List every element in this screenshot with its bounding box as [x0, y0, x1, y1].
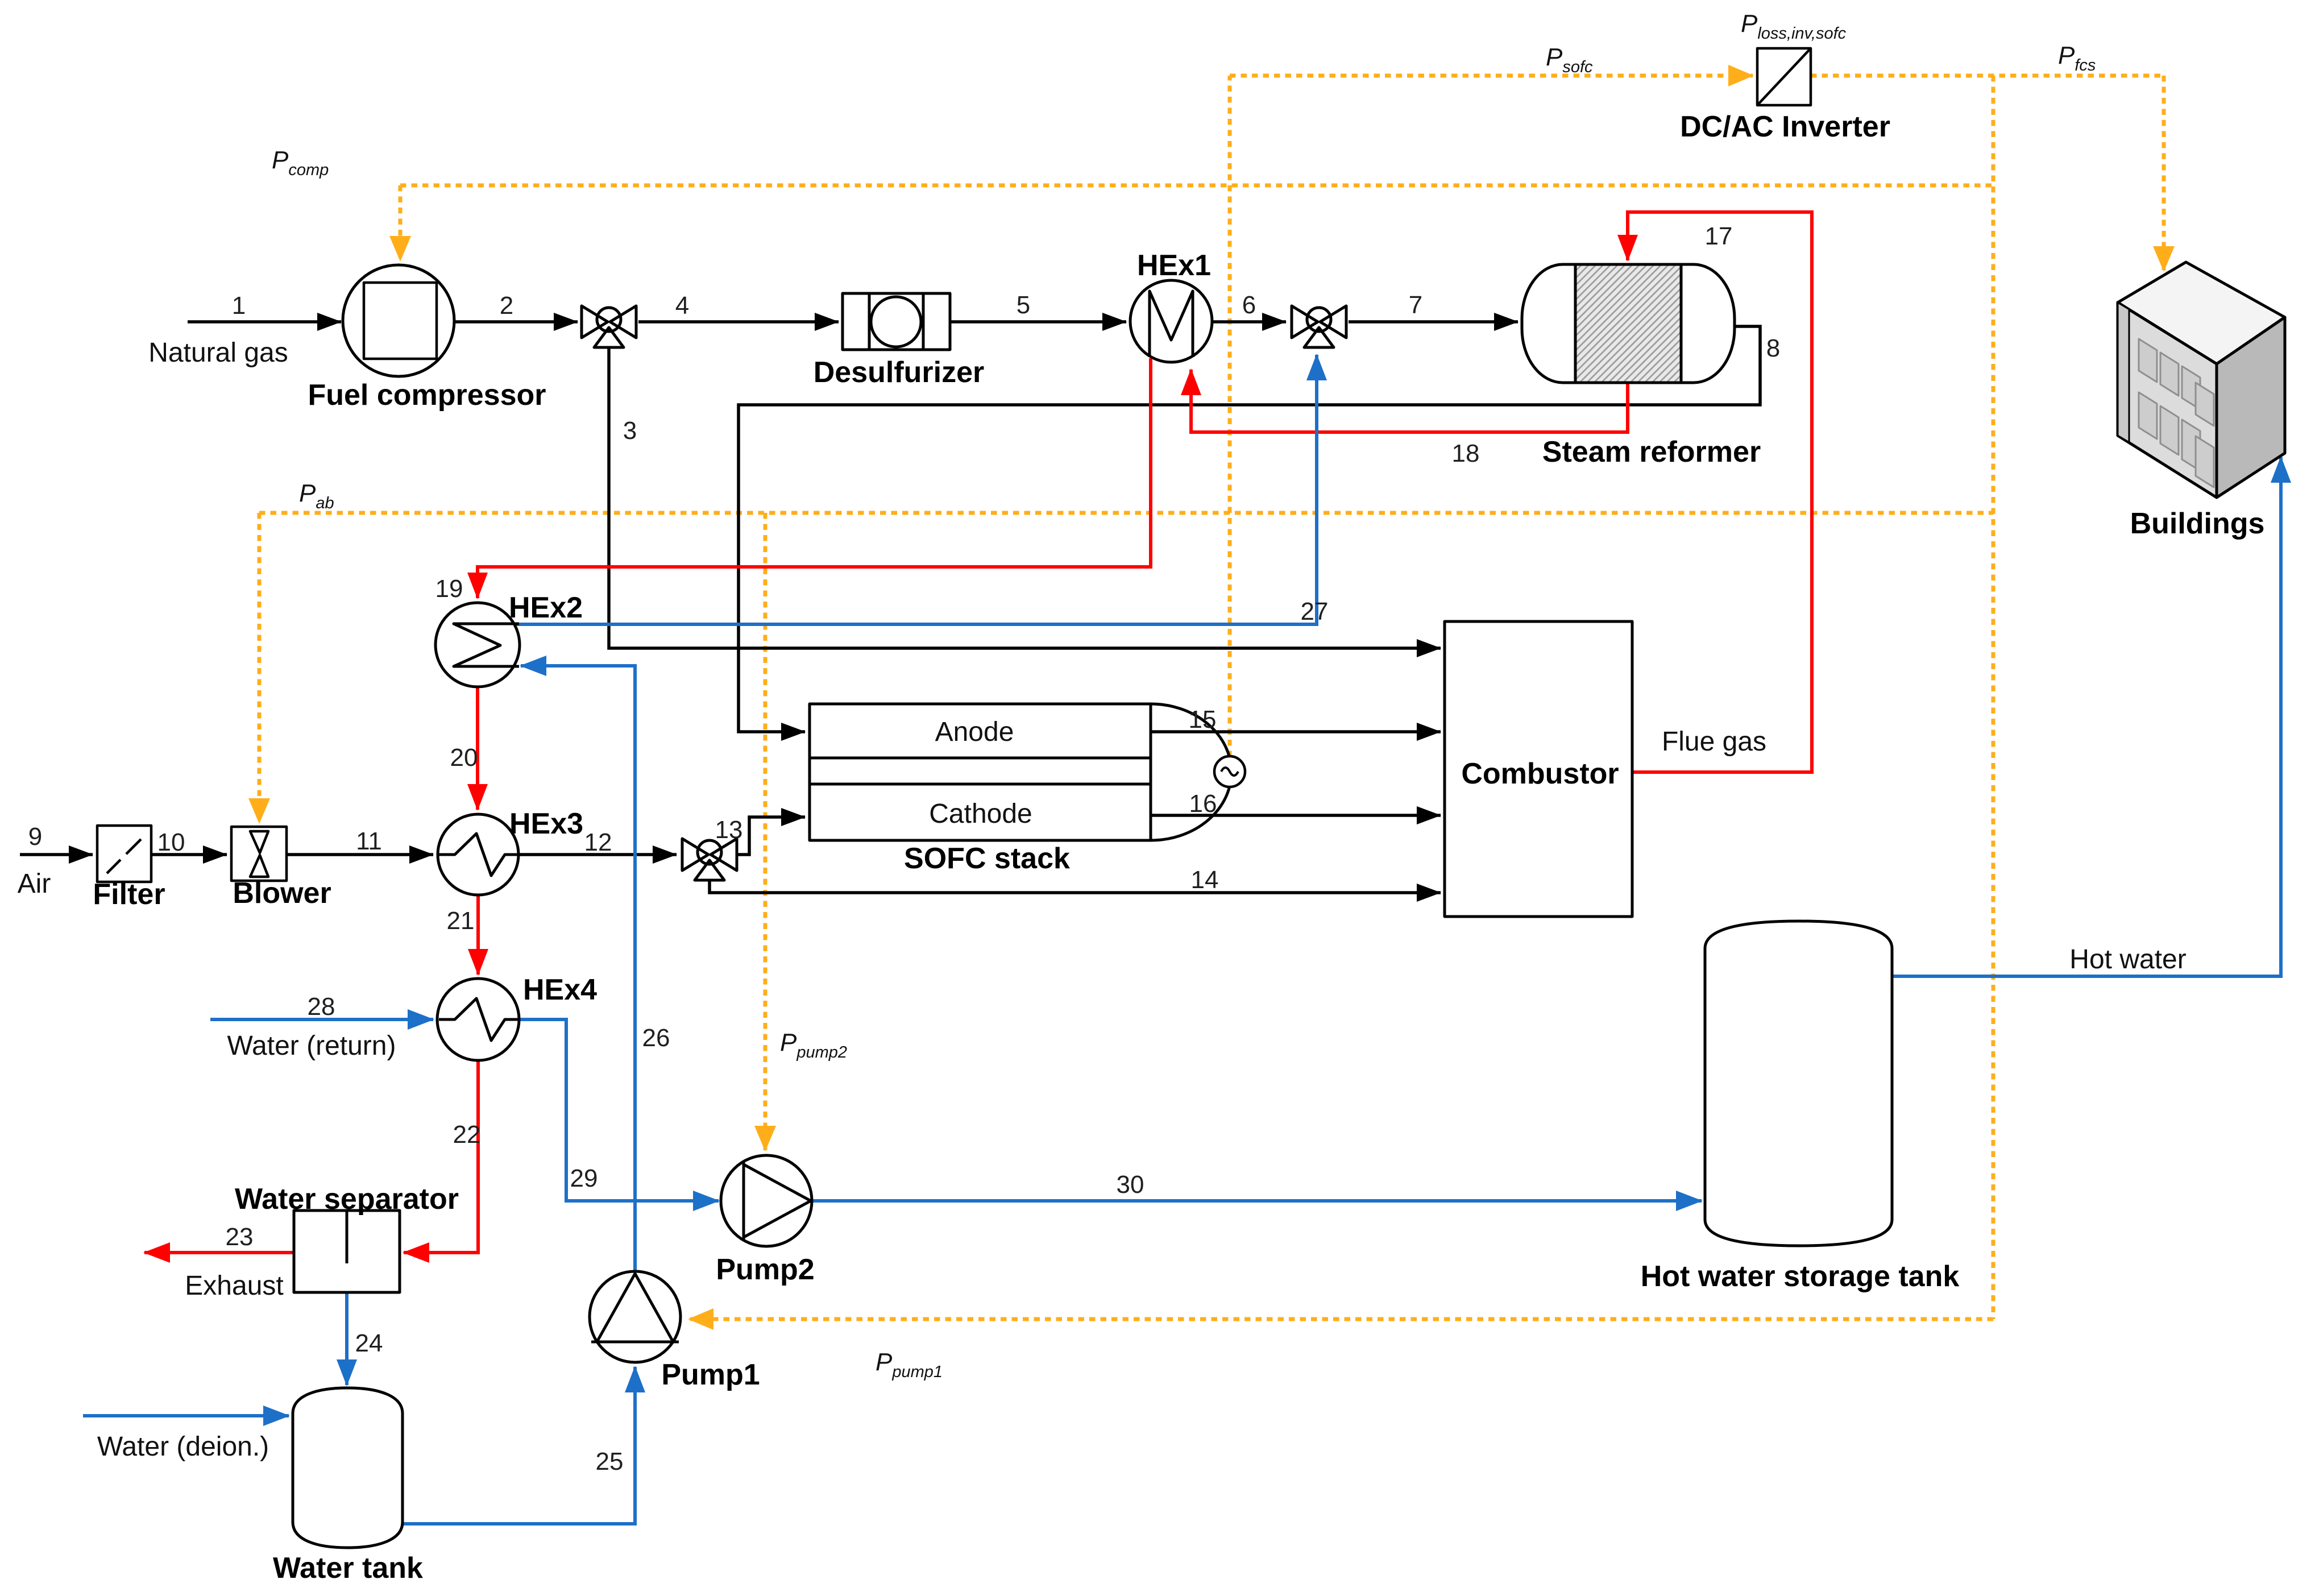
wire stream 19 HEx1 to HEx2	[478, 358, 1151, 598]
svg-text:14: 14	[1191, 866, 1219, 894]
svg-text:19: 19	[435, 575, 463, 603]
svg-text:21: 21	[447, 907, 475, 935]
SOFC stack	[810, 704, 1245, 840]
svg-text:8: 8	[1766, 334, 1780, 362]
wire P_sofc horizontal to DC/AC inverter	[1230, 74, 1753, 78]
svg-text:Cathode: Cathode	[929, 799, 1032, 829]
wire stream 30 Pump2 to storage tank	[812, 1199, 1702, 1203]
svg-text:HEx1: HEx1	[1137, 249, 1211, 282]
svg-text:27: 27	[1301, 598, 1329, 625]
svg-text:30: 30	[1117, 1171, 1144, 1199]
svg-text:Water tank: Water tank	[273, 1552, 423, 1585]
svg-text:Water (deion.): Water (deion.)	[97, 1432, 269, 1462]
water separator	[294, 1211, 400, 1292]
desulfurizer	[843, 293, 950, 350]
svg-text:7: 7	[1409, 291, 1422, 319]
svg-text:24: 24	[355, 1329, 383, 1357]
wire P_sofc vertical from AC symbol	[1228, 76, 1232, 757]
svg-text:11: 11	[356, 827, 382, 855]
svg-text:Flue gas: Flue gas	[1662, 727, 1766, 757]
svg-text:15: 15	[1189, 706, 1217, 733]
svg-text:Water (return): Water (return)	[227, 1031, 396, 1061]
wire stream 12 HEx3 to air valve	[518, 853, 677, 856]
valve V2 (stream 6/7 mixing valve)	[1292, 306, 1346, 347]
svg-text:9: 9	[28, 823, 42, 851]
svg-text:Air: Air	[18, 869, 51, 899]
wire stream 3 valve bypass to combustor	[609, 349, 1441, 648]
hot water storage tank	[1705, 921, 1892, 1246]
svg-text:22: 22	[453, 1121, 481, 1149]
svg-text:17: 17	[1705, 222, 1733, 250]
wire AC power trunk vertical	[1992, 76, 1995, 1319]
wire P_fcs horizontal from inverter	[1811, 74, 2164, 78]
svg-text:DC/AC Inverter: DC/AC Inverter	[1680, 110, 1890, 143]
svg-text:Anode: Anode	[935, 717, 1014, 747]
svg-text:SOFC stack: SOFC stack	[904, 842, 1070, 875]
wire stream 7 valve to steam reformer	[1349, 320, 1518, 324]
svg-text:4: 4	[675, 292, 689, 320]
wire P_pump1 horizontal to Pump1	[689, 1317, 1993, 1321]
svg-text:HEx2: HEx2	[509, 591, 583, 624]
svg-text:20: 20	[450, 744, 478, 772]
wire stream 24 separator to water tank	[345, 1292, 349, 1385]
svg-text:28: 28	[308, 993, 335, 1021]
wire water deionized inlet	[83, 1414, 289, 1417]
svg-text:18: 18	[1452, 440, 1480, 467]
svg-text:HEx4: HEx4	[523, 973, 597, 1006]
svg-text:29: 29	[570, 1164, 598, 1192]
wire P_fcs drop to Buildings	[2162, 76, 2166, 271]
svg-text:Water separator: Water separator	[235, 1183, 459, 1216]
svg-text:Combustor: Combustor	[1461, 757, 1619, 790]
wire stream 22 HEx4 to water separator	[404, 1060, 478, 1253]
wire stream 14 valve bypass to combustor	[710, 881, 1441, 893]
wire P_comp horizontal (orange dashed power line)	[400, 184, 1993, 188]
wire stream 11 blower to HEx3	[287, 853, 433, 856]
svg-text:Exhaust: Exhaust	[185, 1271, 283, 1301]
wire hot water to buildings	[1892, 457, 2281, 976]
heat exchanger HEx3	[438, 814, 518, 895]
svg-text:Blower: Blower	[233, 877, 331, 910]
wire stream 17 flue gas combustor to reformer	[1628, 212, 1812, 772]
DC/AC inverter	[1757, 48, 1811, 105]
pump Pump1	[590, 1271, 681, 1362]
wire stream 26 Pump1 to HEx2	[521, 666, 635, 1271]
AC source symbol on SOFC stack	[1214, 756, 1245, 787]
svg-text:16: 16	[1189, 790, 1217, 818]
wire P_pump2 drop to Pump2	[764, 513, 767, 1150]
svg-text:2: 2	[500, 292, 513, 320]
combustor	[1445, 621, 1632, 917]
wire stream 27 HEx2 steam to mixing valve	[516, 355, 1317, 624]
wire P_ab horizontal	[259, 511, 1993, 515]
svg-text:3: 3	[623, 417, 637, 445]
svg-text:10: 10	[157, 828, 185, 856]
heat exchanger HEx2	[435, 603, 520, 687]
wire stream 2 compressor to valve	[454, 320, 578, 324]
svg-text:23: 23	[226, 1223, 254, 1251]
svg-text:13: 13	[715, 816, 743, 844]
wire stream 9 air inlet	[20, 853, 93, 856]
svg-text:1: 1	[232, 292, 246, 320]
water tank	[293, 1388, 403, 1548]
heat exchanger HEx4	[437, 979, 519, 1060]
svg-text:Hot water: Hot water	[2069, 944, 2186, 975]
air blower	[231, 827, 287, 881]
wire P_ab drop to Blower	[258, 513, 262, 823]
svg-text:26: 26	[642, 1024, 670, 1052]
valve V1 (streams 2/3/4)	[582, 306, 636, 347]
wire stream 8 reformer to anode	[739, 326, 1760, 732]
wire stream 10 filter to blower	[151, 853, 227, 856]
pump Pump2	[721, 1155, 812, 1246]
wire stream 21 HEx3 to HEx4	[476, 895, 480, 975]
svg-text:5: 5	[1017, 291, 1030, 319]
air filter	[97, 826, 151, 882]
heat exchanger HEx1	[1130, 280, 1212, 362]
wire stream 13 valve to cathode	[737, 817, 805, 855]
svg-text:Buildings: Buildings	[2130, 507, 2265, 540]
svg-text:HEx3: HEx3	[509, 807, 583, 840]
svg-text:Pump2: Pump2	[716, 1253, 814, 1286]
wire stream 23 exhaust outlet	[144, 1251, 294, 1254]
svg-text:Pump1: Pump1	[661, 1358, 760, 1391]
svg-text:Fuel compressor: Fuel compressor	[308, 379, 546, 412]
wire stream 20 HEx2 to HEx3	[476, 687, 479, 810]
fuel compressor	[343, 265, 454, 376]
wire P_comp drop to Fuel compressor	[399, 185, 403, 260]
wire stream 28 water return to HEx4	[210, 1018, 433, 1021]
wire stream 15 anode outlet to combustor	[1151, 730, 1441, 733]
svg-text:6: 6	[1242, 291, 1256, 319]
svg-text:Hot water storage tank: Hot water storage tank	[1641, 1260, 1960, 1293]
wire stream 1 natural gas inlet	[188, 320, 341, 324]
svg-text:Steam reformer: Steam reformer	[1542, 436, 1761, 469]
svg-text:Desulfurizer: Desulfurizer	[814, 356, 985, 389]
wire stream 18 reformer heat to HEx1	[1191, 370, 1628, 432]
svg-text:25: 25	[596, 1448, 624, 1475]
wire stream 16 cathode outlet to combustor	[1151, 814, 1441, 817]
svg-text:Natural gas: Natural gas	[148, 338, 288, 368]
wire stream 6 HEx1 to mixing valve	[1212, 320, 1286, 324]
wire stream 25 water tank to Pump1	[403, 1367, 635, 1524]
svg-text:12: 12	[584, 828, 612, 856]
buildings icon	[2118, 262, 2285, 498]
wire stream 5 desulfurizer to HEx1	[950, 320, 1126, 324]
svg-text:Filter: Filter	[93, 878, 165, 911]
wire stream 4 valve to desulfurizer	[638, 320, 839, 324]
valve V3 (streams 12/13/14 air valve)	[682, 839, 737, 880]
steam reformer vessel	[1522, 264, 1735, 383]
wire stream 29 HEx4 to Pump2	[519, 1019, 719, 1201]
